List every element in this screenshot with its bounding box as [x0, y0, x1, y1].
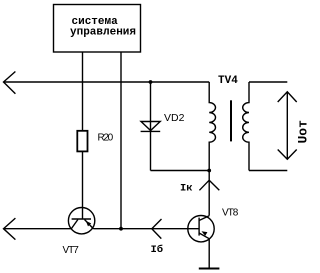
wire: box right output down to lower bus: [120, 52, 122, 229]
svg-text:Iб: Iб: [151, 243, 164, 256]
svg-text:VT8: VT8: [222, 208, 239, 219]
voltage arrow Uot: [278, 92, 311, 159]
wire: upper bus horizontal: [4, 81, 210, 83]
svg-text:Iк: Iк: [180, 183, 193, 195]
svg-text:VD2: VD2: [164, 112, 185, 124]
junction: primary bottom / collector node: [207, 169, 211, 173]
junction: right output on lower bus: [119, 227, 123, 231]
base current arrow Ib: [151, 219, 164, 256]
collector current arrow Ik: [180, 180, 219, 194]
svg-text:TV4: TV4: [218, 75, 238, 87]
svg-text:управления: управления: [70, 27, 136, 39]
wire: secondary bottom lead: [249, 170, 287, 172]
transistor VT8: [188, 208, 239, 242]
wire: collector of VT8 up to node: [208, 171, 210, 216]
secondary winding: [243, 82, 249, 171]
diode VD2: [141, 112, 185, 131]
svg-text:VT7: VT7: [63, 245, 80, 256]
wire: lower bus middle segment (VT7 to VT8 base): [94, 228, 200, 230]
transformer TV4: [209, 75, 287, 171]
wire: secondary top lead: [249, 81, 287, 83]
ground: [199, 268, 220, 270]
primary winding: [209, 82, 215, 171]
wire: R20 to VT7 base bar: [82, 151, 84, 219]
wire: lower bus left segment: [4, 228, 72, 230]
svg-text:Uот: Uот: [296, 120, 311, 144]
arrow: lower bus pointing left: [4, 218, 16, 240]
junction: diode branch on upper bus: [149, 80, 153, 84]
arrow: upper bus pointing left: [4, 72, 16, 94]
wire: loop bottom horizontal: [151, 170, 210, 172]
transistor VT7: [63, 208, 95, 257]
control system box U1: [54, 5, 141, 53]
svg-text:R20: R20: [98, 133, 114, 144]
resistor R20: [77, 131, 113, 152]
wire: diode branch vertical: [150, 82, 152, 171]
core: [230, 100, 232, 141]
wire: emitter of VT8 down to ground: [208, 239, 210, 269]
wire: box left output down to R20: [82, 52, 84, 131]
